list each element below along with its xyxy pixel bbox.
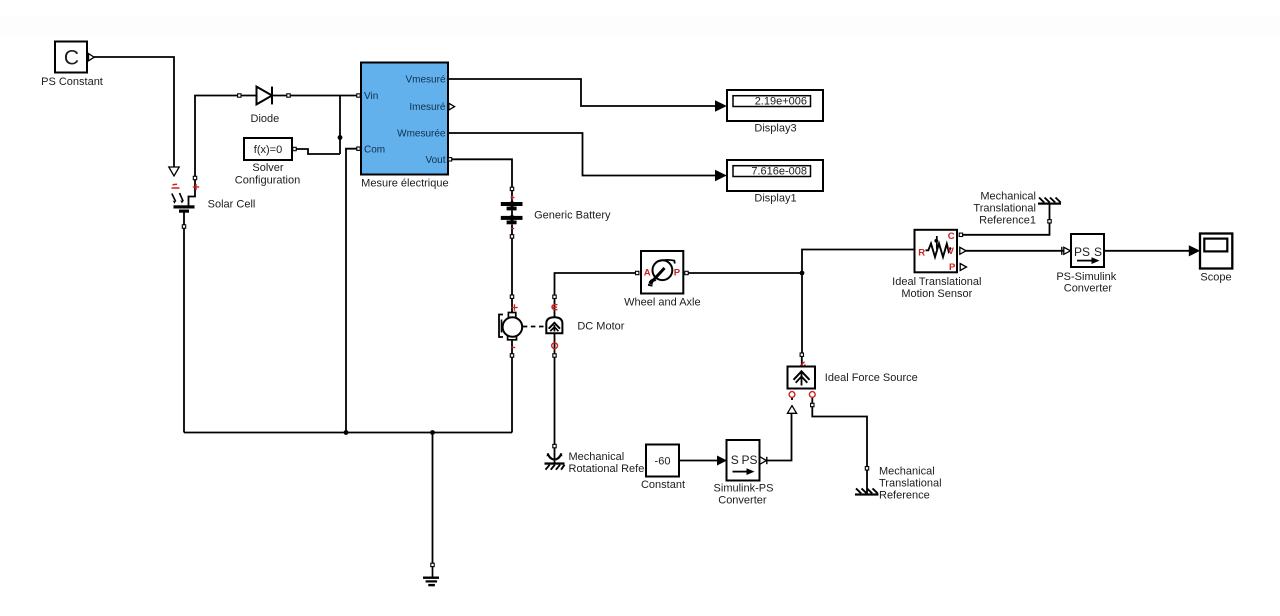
svg-text:PS: PS	[1074, 245, 1090, 259]
svg-text:C: C	[64, 47, 79, 70]
mechanical translational reference1 symbol	[1038, 198, 1061, 224]
wire sensor V to PS-Simulink	[966, 250, 1064, 252]
block Mesure electrique	[357, 63, 455, 175]
wire Wmesuree to Display1	[448, 133, 716, 176]
svg-text:Imesuré: Imesuré	[409, 102, 446, 113]
svg-text:7.616e-008: 7.616e-008	[751, 166, 807, 178]
svg-text:Motion Sensor: Motion Sensor	[901, 288, 972, 300]
wire battery to DC motor	[511, 239, 513, 296]
junction dot wheel-sensor-force	[800, 271, 805, 276]
svg-text:Wmesurée: Wmesurée	[397, 129, 446, 140]
svg-text:P: P	[674, 267, 681, 278]
svg-text:Mechanical: Mechanical	[980, 191, 1036, 203]
svg-text:PS: PS	[741, 453, 757, 467]
wire DC motor C port down to rotational reference	[554, 333, 556, 444]
wire Com to bottom bus	[346, 149, 360, 433]
svg-text:PS Constant: PS Constant	[41, 76, 103, 88]
svg-text:Reference1: Reference1	[979, 215, 1036, 227]
svg-text:DC Motor: DC Motor	[577, 321, 624, 333]
mechanical translational reference symbol	[855, 467, 879, 496]
svg-text:Converter: Converter	[718, 494, 767, 506]
wire reference1 stem	[1049, 204, 1051, 223]
wire DC motor plus stub	[511, 299, 513, 313]
svg-text:Vin: Vin	[364, 91, 378, 102]
wire battery internal stubs	[511, 191, 513, 235]
svg-text:Configuration: Configuration	[235, 174, 300, 186]
svg-text:Simulink-PS: Simulink-PS	[714, 483, 774, 495]
label Mechanical Rotational Reference	[569, 451, 661, 475]
block Wheel and Axle	[636, 251, 689, 294]
wire sensor C to reference1	[963, 220, 1050, 235]
ground electrical reference	[423, 563, 439, 586]
wire Solar Cell bottom to bus	[183, 213, 185, 433]
svg-text:Mechanical: Mechanical	[879, 466, 935, 478]
wire force source top stub	[801, 357, 803, 367]
DC motor symbol	[499, 295, 562, 357]
svg-text:Constant: Constant	[641, 479, 685, 491]
wire DC motor minus to bus	[511, 340, 513, 433]
wire bottom bus	[184, 432, 512, 434]
svg-text:PS-Simulink: PS-Simulink	[1056, 271, 1116, 283]
svg-text:Translational: Translational	[879, 478, 942, 490]
junction dot bus-ground	[430, 430, 435, 435]
svg-text:Com: Com	[364, 144, 385, 155]
open arrow end of PS wire	[169, 167, 179, 176]
svg-text:Mesure électrique: Mesure électrique	[361, 178, 448, 190]
svg-text:Solver: Solver	[252, 162, 284, 174]
wire PS-Simulink to Scope	[1104, 250, 1189, 252]
wire Vout to battery	[451, 159, 512, 187]
solar cell symbol	[172, 193, 195, 213]
svg-text:Generic Battery: Generic Battery	[534, 209, 611, 221]
wire DC motor R port up to Wheel A	[555, 273, 638, 318]
svg-text:Reference: Reference	[879, 490, 930, 502]
svg-text:S: S	[1094, 245, 1102, 259]
svg-text:Vmesuré: Vmesuré	[405, 75, 445, 86]
block Simulink-PS Converter	[717, 440, 767, 481]
svg-text:Display1: Display1	[754, 192, 796, 204]
wire Vmesure to Display3	[448, 79, 716, 106]
svg-text:Scope: Scope	[1200, 272, 1231, 284]
wire Constant to Simulink-PS	[679, 460, 717, 462]
svg-text:-60: -60	[655, 455, 671, 467]
svg-text:R: R	[918, 248, 925, 259]
wire Diode to Vin	[273, 95, 361, 97]
svg-text:Ideal Force Source: Ideal Force Source	[825, 372, 918, 384]
port square solar plus	[193, 176, 196, 179]
wire Solar Cell plus to Diode	[195, 96, 256, 178]
block Ideal Force Source	[787, 353, 815, 413]
svg-text:Translational: Translational	[973, 203, 1036, 215]
junction dot bus-com	[344, 430, 349, 435]
svg-text:Converter: Converter	[1064, 283, 1113, 295]
block PS-Simulink Converter	[1062, 234, 1104, 267]
wire force source right to translational reference	[812, 407, 867, 467]
svg-text:f(x)=0: f(x)=0	[254, 144, 282, 156]
wire branch Vin to Solver net	[339, 96, 341, 155]
svg-text:Diode: Diode	[251, 113, 280, 125]
svg-text:Vout: Vout	[425, 155, 445, 166]
red unconnected mark Solar Cell left	[172, 184, 180, 188]
port square solar bottom	[182, 225, 185, 228]
wire Wheel P to junction	[688, 272, 802, 274]
block Display1	[715, 160, 823, 191]
wire PS Constant output	[94, 57, 174, 167]
block Solver Configuration	[244, 138, 296, 160]
generic battery symbol	[501, 187, 523, 238]
wire Solar Cell plus jog	[189, 179, 196, 206]
wire junction up to sensor R	[802, 250, 915, 274]
wire junction down to force source	[801, 273, 803, 353]
svg-text:Solar Cell: Solar Cell	[208, 198, 256, 210]
diode D1	[238, 87, 291, 105]
wire force source right port down	[811, 398, 813, 403]
wire force source left stub	[791, 398, 793, 400]
mechanical rotational reference symbol	[545, 444, 565, 469]
wire translational reference stem	[866, 470, 868, 493]
svg-text:Mechanical: Mechanical	[569, 451, 625, 463]
svg-text:Wheel and Axle: Wheel and Axle	[624, 297, 700, 309]
svg-text:P: P	[949, 262, 956, 273]
block PS Constant	[55, 42, 94, 73]
block Display3	[715, 90, 823, 121]
block Constant	[646, 445, 679, 477]
wire Solver Configuration output	[297, 149, 341, 154]
red plus mark Solar Cell	[193, 184, 199, 190]
svg-text:A: A	[644, 267, 651, 278]
svg-text:Ideal Translational: Ideal Translational	[892, 276, 981, 288]
svg-text:C: C	[948, 231, 955, 242]
wire rotational reference stem	[554, 448, 556, 463]
junction dot solver net	[338, 135, 343, 140]
block Scope	[1189, 234, 1233, 269]
wire ground stem	[432, 433, 434, 564]
wire Simulink-PS output up to force source	[766, 414, 792, 461]
block Ideal Translational Motion Sensor	[915, 230, 967, 273]
svg-text:V: V	[948, 246, 955, 257]
svg-text:Display3: Display3	[754, 122, 796, 134]
svg-text:S: S	[731, 453, 739, 467]
svg-text:2.19e+006: 2.19e+006	[755, 96, 807, 108]
